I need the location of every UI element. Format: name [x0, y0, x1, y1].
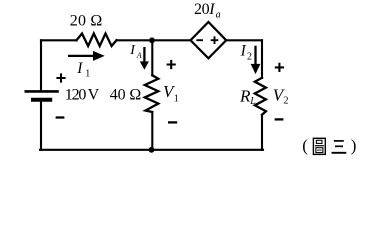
V2 minus sign	[275, 118, 284, 120]
source plus sign	[211, 36, 219, 44]
dependent source diamond 20Ia	[191, 22, 227, 58]
junction node top	[149, 37, 155, 43]
svg-text:20 Ω: 20 Ω	[70, 13, 103, 30]
battery 120V short plate	[33, 98, 50, 102]
svg-text:R: R	[239, 87, 251, 106]
resistor R 20ohm zigzag	[77, 34, 117, 47]
wire top-right segment	[226, 39, 262, 41]
svg-text:I: I	[129, 43, 136, 58]
battery minus sign	[56, 116, 65, 118]
wire bottom	[40, 149, 263, 151]
wire right upper	[261, 40, 263, 78]
resistor 40ohm zigzag	[145, 75, 159, 112]
svg-text:L: L	[249, 96, 256, 107]
svg-text:A: A	[136, 51, 142, 60]
wire 40ohm branch upper	[151, 40, 153, 75]
resistor RL zigzag	[255, 78, 266, 115]
svg-text:I: I	[240, 42, 247, 59]
wire top-left segment	[41, 39, 77, 41]
V1 minus sign	[168, 121, 177, 123]
junction node bottom	[149, 147, 155, 153]
wire right lower	[261, 115, 263, 150]
svg-text:1: 1	[174, 94, 179, 105]
svg-text:I: I	[76, 60, 83, 77]
V2 plus sign	[275, 63, 284, 72]
svg-text:40 Ω: 40 Ω	[110, 87, 142, 104]
V1 plus sign	[167, 60, 176, 69]
svg-text:): )	[351, 136, 357, 155]
battery plus sign	[56, 73, 65, 82]
source minus sign	[196, 39, 203, 41]
caption glyph tu (figure)	[313, 138, 325, 154]
wire top-middle segment	[117, 39, 191, 41]
svg-text:2: 2	[284, 96, 289, 107]
wire left upper	[40, 40, 42, 90]
wire 40ohm branch lower	[151, 112, 153, 150]
current arrow IA	[140, 47, 149, 70]
svg-text:120 V: 120 V	[65, 87, 100, 104]
svg-text:2: 2	[247, 51, 252, 62]
svg-text:1: 1	[85, 69, 90, 80]
current arrow I1	[68, 51, 105, 61]
battery 120V long plate	[26, 90, 58, 93]
current arrow I2	[251, 46, 261, 74]
svg-text:(: (	[302, 136, 308, 155]
wire left lower	[40, 102, 42, 150]
caption glyph san (three)	[332, 141, 347, 153]
svg-text:20I: 20I	[194, 1, 215, 18]
svg-text:a: a	[216, 10, 221, 21]
